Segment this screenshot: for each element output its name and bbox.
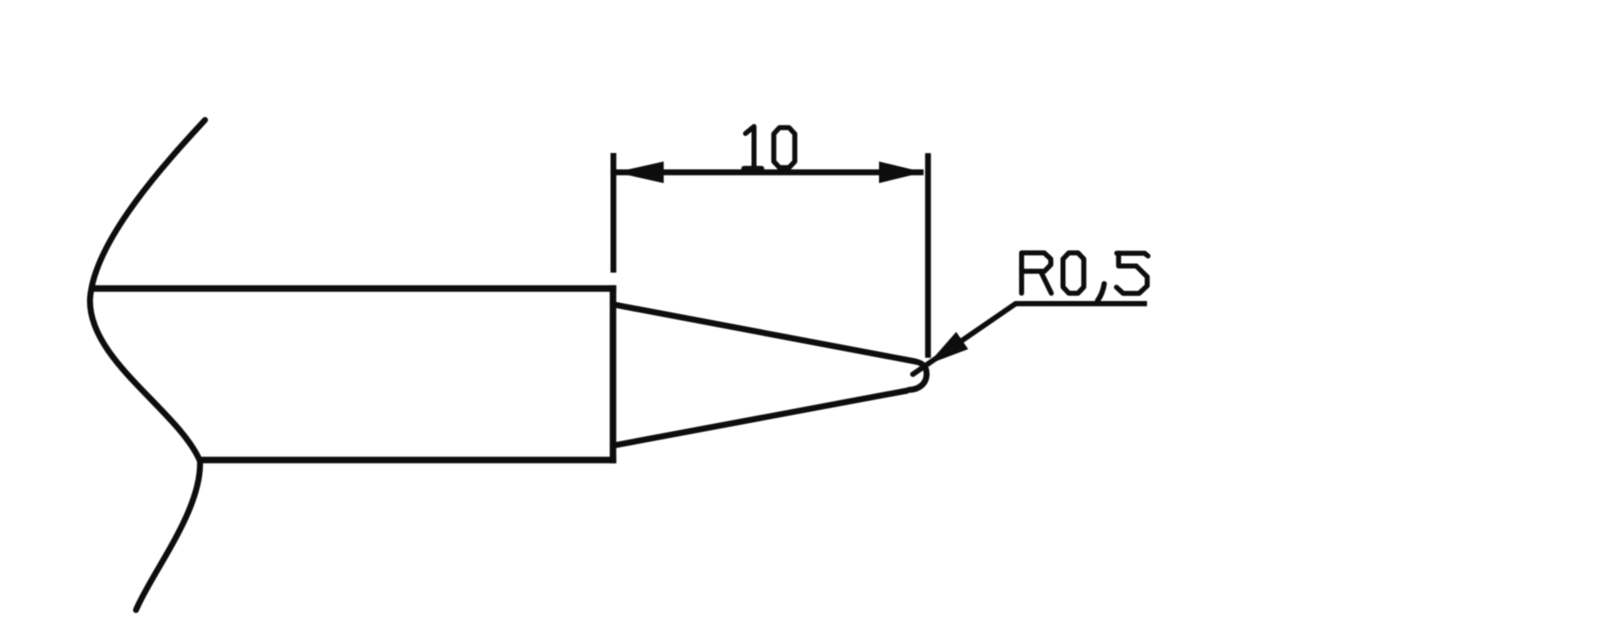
dimension arrowhead left: [616, 162, 664, 184]
dimension text 10 : digit 1: [746, 127, 755, 168]
cone top line: [615, 305, 916, 362]
dimension arrowhead right: [879, 162, 924, 184]
leader arrowhead: [928, 332, 969, 365]
tip arc R0,5: [909, 362, 927, 390]
dimension text 10 : digit 0: [774, 128, 795, 168]
extension line left: [611, 153, 617, 273]
leader line R0,5: [913, 304, 1016, 375]
body right edge: [610, 285, 617, 463]
leader underline R0,5: [1016, 301, 1147, 306]
extension line right: [925, 153, 931, 358]
body bottom line: [201, 457, 616, 464]
label text R0,5 : comma: [1098, 284, 1105, 301]
label text R0,5 : digit 5: [1117, 253, 1148, 256]
dimension line: [616, 169, 924, 175]
cone bottom line: [615, 391, 909, 446]
label text R0,5 : letter R: [1022, 253, 1051, 293]
break line (wavy S-curve, left): [90, 120, 205, 610]
label text R0,5 : digit 0: [1063, 253, 1084, 293]
body top line: [91, 285, 616, 292]
